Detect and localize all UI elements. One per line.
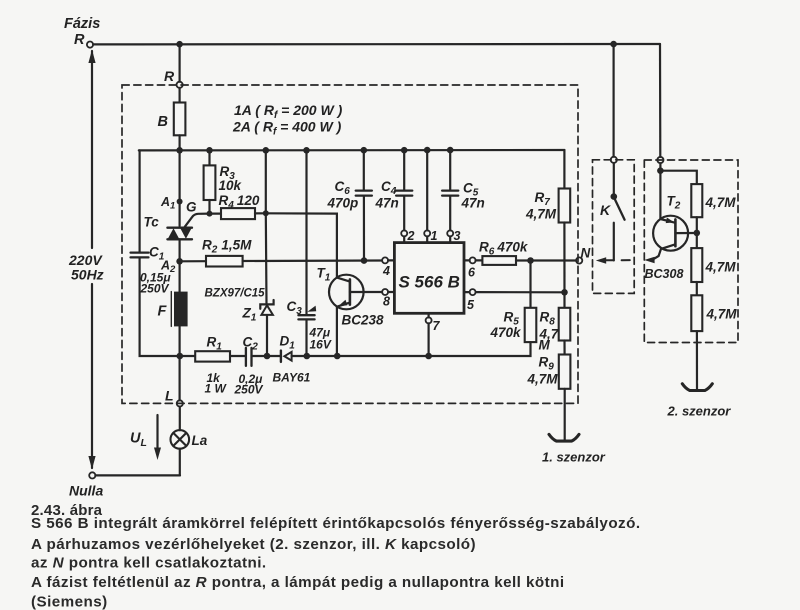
wire: triac gate to R3/R4 junction [185,214,210,228]
dashed box T2 sensor amplifier [644,160,738,343]
pin 4 circle [382,257,388,263]
svg-text:2: 2 [407,229,415,243]
svg-text:250V: 250V [140,282,170,296]
node: pin7 junction dot [425,353,432,360]
svg-text:1. szenzor: 1. szenzor [542,450,606,465]
svg-text:10k: 10k [219,178,243,193]
svg-text:7: 7 [433,319,441,333]
svg-text:4,7M: 4,7M [705,260,737,275]
capacitor C6 [363,150,365,190]
wire: triac A2 down to fuse F [179,239,181,356]
svg-text:R: R [74,32,85,48]
wire: bus down to C3 [305,150,307,314]
node: gate junction dot [207,211,213,217]
svg-text:R: R [164,68,175,84]
terminal Nulla [89,472,95,478]
node: T2 emitter branch dot [657,167,664,174]
resistor 4.7M (b) [696,233,698,248]
resistor 4.7M (a) [691,184,702,217]
capacitor C5 [449,150,451,190]
resistor R3 [208,150,210,165]
pin 6 circle [464,259,470,261]
svg-text:S 566 B: S 566 B [399,273,460,292]
svg-text:3: 3 [454,229,461,243]
svg-text:L: L [165,388,174,404]
junction dots on inner top bus [176,147,183,154]
pin 8 circle [382,289,388,295]
svg-text:4,7M: 4,7M [525,207,557,222]
svg-text:4,7M: 4,7M [527,372,559,387]
switch K [613,163,615,194]
pin 2 circle [401,230,407,236]
pin 1 circle [424,230,430,236]
triac Tc [167,227,192,229]
svg-text:G: G [186,200,197,215]
svg-text:2. szenzor: 2. szenzor [667,404,732,419]
svg-text:F: F [158,304,168,320]
transistor T1 BC238 [329,275,364,310]
svg-text:8: 8 [383,295,390,309]
svg-text:470p: 470p [327,196,359,211]
svg-text:47n: 47n [461,196,485,211]
svg-text:BZX97/C15: BZX97/C15 [205,288,266,300]
node: R6/R5 junction dot [527,257,534,264]
svg-text:1: 1 [431,229,438,243]
svg-text:Tc: Tc [144,215,160,230]
wire: bus left corner down to C1 [139,150,141,251]
resistor R5 [529,261,531,308]
wire: B to inner top bus [179,135,181,150]
wire: branch to resistor chain [660,171,696,184]
node A1 dot [177,199,183,205]
diode D1 BAY61 [280,351,282,362]
wire: 220V measurement line upper segment with up arrow [91,51,93,248]
resistor 4.7M (c) [691,295,702,331]
svg-text:Nulla: Nulla [69,483,103,499]
op-amp/IC U1 S566B box [394,243,464,314]
svg-text:S 566 B integrált áramkörrel f: S 566 B integrált áramkörrel felépített … [31,515,641,532]
bottom rail: R1/C2/D1 row [180,355,196,357]
svg-text:16V: 16V [310,338,332,352]
node: R4 right junction dot [263,210,269,216]
node L (open circle on dashed bottom edge) [177,400,183,406]
svg-text:az N pontra kell csatlakoztatn: az N pontra kell csatlakoztatni. [31,555,267,572]
svg-text:BAY61: BAY61 [273,371,311,385]
wire: R9 down to sensor 1 [564,389,566,440]
node: base/divider junction dot [694,230,701,237]
svg-text:A párhuzamos vezérlőhelyeket (: A párhuzamos vezérlőhelyeket (2. szenzor… [31,536,476,553]
sensor 2 plate symbol [682,384,712,391]
fuse F (black body) [170,292,172,327]
wire: down to sensor 2 [696,331,698,389]
wire: R4 line extension to T1 collector [266,213,337,277]
node: pin5/R7/R8 junction dot [561,289,568,296]
wire: top wire corner down to T2 box [659,44,661,157]
pin 5 circle and wire [464,291,470,293]
arrow UL [156,415,158,450]
wire: bus down to R4 junction [265,150,267,213]
svg-text:5: 5 [467,298,475,312]
node: C3 bottom junction dot [304,353,311,360]
wire: top wire down to K switch [612,44,614,157]
node: T1 emitter junction dot [334,353,341,360]
svg-text:4,7M: 4,7M [706,307,738,322]
svg-text:BC308: BC308 [645,267,684,281]
lamp La [179,407,181,431]
node junction: K branch at top wire [610,41,617,48]
svg-text:K: K [600,202,611,218]
resistor R6 [476,259,483,261]
node R (open circle on dashed top edge) [177,82,183,88]
svg-text:50Hz: 50Hz [71,267,104,283]
wire: 220V measurement line lower segment with down arrow [91,284,93,468]
sensor 1 plate symbol [549,434,579,441]
dashed link N to K with arrow [596,257,606,264]
wire: C1 down and right to bottom rail [140,258,180,356]
wire: node R down to fuse B [179,88,181,103]
pin 7 circle and wire [428,313,430,317]
svg-text:47n: 47n [375,196,399,211]
svg-text:Fázis: Fázis [64,16,100,32]
wire: L node branch [179,356,181,400]
wire: top wire down to node R [179,44,181,81]
capacitor C1 [131,252,149,254]
node: C6 bottom junction dot on R2/pin4 line [361,257,368,264]
svg-text:A fázist feltétlenül az R pont: A fázist feltétlenül az R pontra, a lámp… [31,574,565,591]
svg-text:470k: 470k [490,325,523,340]
node junction: main vertical at top wire [176,41,183,48]
wire: top horizontal bus from R terminal to T2 branch [93,43,660,46]
resistor R2 [180,260,206,262]
capacitor C3 (electrolytic) [298,314,314,316]
resistor R8 [559,308,571,341]
node: bottom-left junction dot [177,353,184,360]
capacitor C2 [245,348,247,366]
node: Z1 bottom junction dot [264,353,271,360]
node N (open circle on dashed right edge) [576,257,582,263]
svg-text:(Siemens): (Siemens) [31,594,108,610]
wire: pin 1 line [426,150,428,230]
node A2 junction dot [176,258,183,265]
wire: R4 junction down to zener Z1 [265,213,268,304]
transistor T2 BC308 [653,216,688,251]
svg-text:250V: 250V [234,383,264,397]
svg-text:BC238: BC238 [342,313,385,328]
pin 3 circle [447,230,453,236]
dashed link K to T2 with arrow [622,259,630,261]
svg-text:6: 6 [468,266,476,280]
wire: Nulla to lamp bottom [95,474,180,476]
svg-text:4: 4 [382,264,390,278]
terminal Fazis R [87,42,93,48]
capacitor C4 [403,150,405,190]
K top terminal (open circle) [611,157,617,163]
resistor R4 [210,213,222,215]
svg-text:B: B [158,114,168,130]
fuse B [174,103,186,136]
wire: main vertical from bus to triac [179,150,181,226]
svg-text:La: La [192,433,208,448]
svg-text:N: N [581,246,591,261]
svg-text:4,7M: 4,7M [705,195,737,210]
resistor R9 [559,355,571,389]
svg-text:M: M [539,338,551,353]
resistor R1 [195,351,230,361]
dashed enclosure box (main circuit) [122,85,578,403]
resistor R7 [563,150,565,189]
svg-text:1 W: 1 W [205,382,228,396]
zener Z1 [260,300,273,309]
dashed box K switch [593,160,635,294]
T2 box top terminal (open circle) [657,157,663,163]
wire: inner top bus [139,149,565,152]
